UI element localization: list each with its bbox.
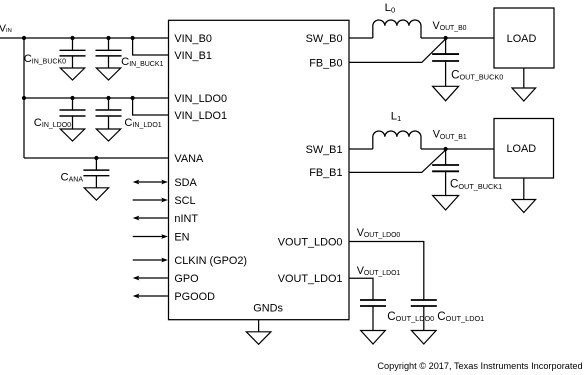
node junction VIN at trunk: [22, 36, 26, 40]
wire LOAD1 ground stem: [523, 68, 525, 88]
IC U1 body: [169, 20, 350, 319]
capacitor C_OUT_LDO0 plates: [360, 300, 386, 306]
svg-text:SCL: SCL: [174, 195, 195, 207]
svg-text:VOUT_LDO1: VOUT_LDO1: [278, 273, 343, 285]
wire FB_B0 with sense diagonal: [349, 40, 445, 63]
svg-text:LOAD: LOAD: [506, 143, 536, 155]
capacitor C_IN_BUCK0 plates: [60, 50, 86, 56]
arrow PGOOD output: [133, 294, 168, 299]
ground C_IN_BUCK0: [60, 68, 84, 80]
wire VOUT_LDO1 to C_OUT_LDO0: [349, 278, 373, 330]
wire LOAD2 ground stem: [523, 178, 525, 200]
node junction C_ANA: [94, 156, 98, 160]
node junction trunk row2: [22, 96, 26, 100]
wire VANA row3: [24, 157, 169, 159]
wire input trunk vertical: [23, 38, 25, 158]
node junction C_IN_LDO0: [70, 96, 74, 100]
arrow SDA bidirectional: [133, 180, 168, 185]
arrow GPO output: [133, 276, 168, 281]
wire GNDs stem: [258, 320, 260, 332]
wire stem C_IN_BUCK0: [72, 38, 74, 68]
ground GNDs: [246, 332, 271, 345]
capacitor C_IN_LDO0 plates: [60, 110, 86, 116]
ground C_OUT_BUCK0: [433, 86, 459, 101]
node junction VIN_LDO1 tap: [131, 96, 135, 100]
node junction C_IN_BUCK0: [70, 36, 74, 40]
load box LOAD2: [494, 119, 554, 179]
ground LOAD2: [512, 200, 536, 213]
wire stem C_OUT_BUCK0: [445, 38, 447, 86]
node junction VIN_B1 tap: [131, 36, 135, 40]
svg-text:PGOOD: PGOOD: [174, 291, 215, 303]
wire FB_B1 with sense diagonal: [349, 151, 445, 173]
wire L0 to node V_OUT_B0 and LOAD: [421, 37, 494, 39]
capacitor C_ANA plates: [83, 170, 109, 176]
wire L1 to node V_OUT_B1 and LOAD: [421, 148, 494, 150]
capacitor C_OUT_BUCK1 plates: [432, 165, 459, 171]
node V_OUT_B0: [444, 36, 448, 40]
ground C_OUT_LDO0: [361, 331, 386, 345]
ground C_ANA: [84, 188, 108, 200]
svg-text:GPO: GPO: [174, 273, 198, 285]
inductor L1: [373, 131, 421, 149]
svg-text:VIN_LDO1: VIN_LDO1: [174, 110, 227, 122]
svg-text:VIN_B0: VIN_B0: [174, 33, 212, 45]
ground C_OUT_BUCK1: [433, 196, 459, 211]
arrow EN input: [133, 234, 168, 239]
svg-text:EN: EN: [174, 231, 189, 243]
ground C_IN_BUCK1: [96, 68, 120, 80]
wire SW_B1 to L1: [349, 148, 373, 150]
ground C_IN_LDO1: [96, 129, 120, 141]
svg-text:VANA: VANA: [174, 153, 204, 165]
wire stem C_IN_LDO0: [72, 98, 74, 129]
ground LOAD1: [512, 88, 536, 101]
load box LOAD1: [494, 8, 554, 68]
ground C_OUT_LDO1: [412, 331, 437, 345]
capacitor C_OUT_LDO1 plates: [411, 300, 437, 306]
arrow nINT output: [133, 216, 168, 221]
svg-text:CLKIN (GPO2): CLKIN (GPO2): [174, 255, 247, 267]
wire stem C_IN_LDO1: [108, 98, 110, 129]
svg-text:SW_B0: SW_B0: [306, 33, 343, 45]
node junction C_IN_LDO1: [106, 96, 110, 100]
svg-text:LOAD: LOAD: [507, 33, 537, 45]
wire stem C_OUT_BUCK1: [445, 149, 447, 196]
wire VIN rail row1: [0, 37, 169, 39]
capacitor C_OUT_BUCK0 plates: [432, 54, 459, 61]
inductor L0: [373, 20, 421, 38]
wire stem C_IN_BUCK1: [108, 38, 110, 68]
capacitor C_IN_LDO1 plates: [96, 110, 122, 116]
wire jog to VIN_B1 pin: [133, 38, 169, 55]
svg-text:SW_B1: SW_B1: [306, 144, 343, 156]
svg-text:VOUT_LDO0: VOUT_LDO0: [278, 236, 343, 248]
svg-text:FB_B1: FB_B1: [309, 167, 342, 179]
wire VIN_LDO row2: [24, 97, 169, 99]
wire stem C_ANA: [95, 158, 97, 188]
svg-text:GNDs: GNDs: [253, 303, 283, 315]
svg-text:VIN_B1: VIN_B1: [174, 50, 212, 62]
ground C_IN_LDO0: [60, 129, 84, 141]
node junction C_IN_BUCK1: [106, 36, 110, 40]
svg-text:SDA: SDA: [174, 177, 197, 189]
node V_OUT_B1: [444, 147, 448, 151]
wire SW_B0 to L0: [349, 37, 373, 39]
capacitor C_IN_BUCK1 plates: [96, 50, 122, 56]
wire jog to VIN_LDO1 pin: [133, 98, 169, 115]
svg-text:VIN_LDO0: VIN_LDO0: [174, 93, 227, 105]
wire VOUT_LDO0 to C_OUT_LDO1: [349, 242, 424, 331]
svg-text:Copyright © 2017, Texas Instru: Copyright © 2017, Texas Instruments Inco…: [377, 361, 582, 371]
arrow SCL input: [133, 198, 168, 203]
svg-text:nINT: nINT: [174, 213, 198, 225]
arrow CLKIN input: [133, 258, 168, 263]
svg-text:FB_B0: FB_B0: [309, 57, 342, 69]
